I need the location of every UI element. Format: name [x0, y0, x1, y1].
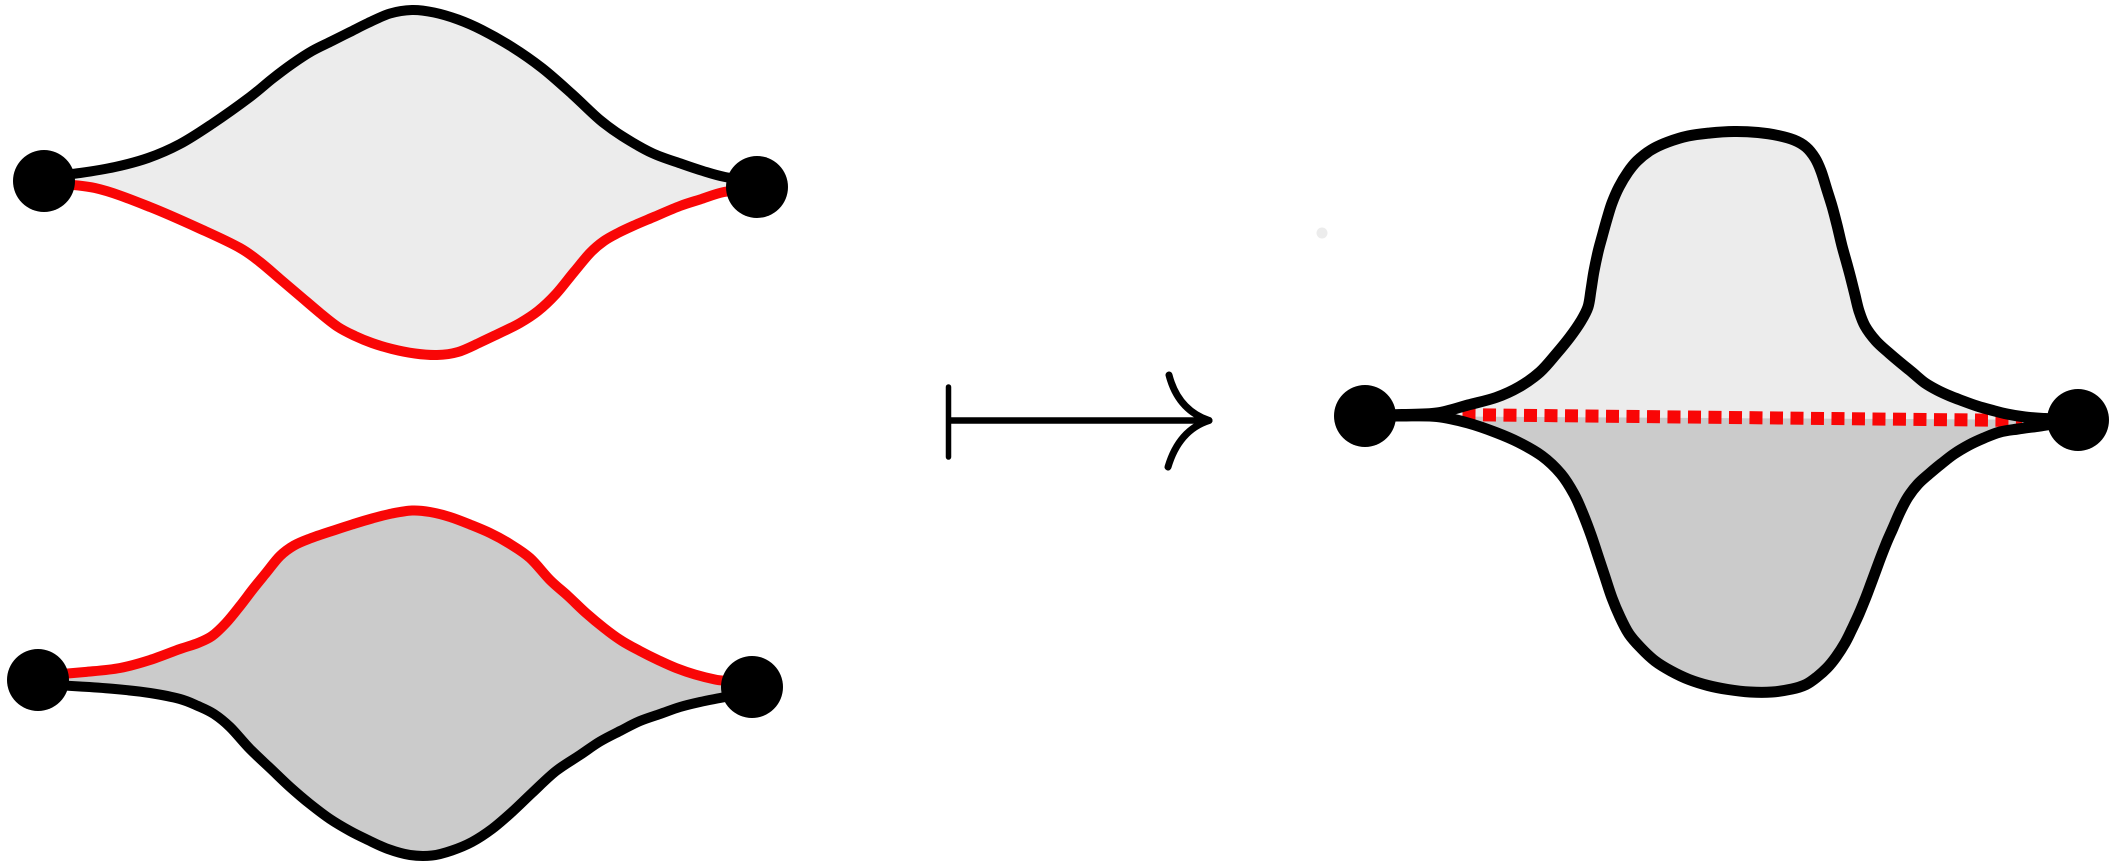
maps-to arrow upper barb [1169, 375, 1209, 421]
maps-to arrow bar [946, 387, 952, 457]
faint stray artifact dot [1317, 228, 1328, 239]
glued surface upper (light) fill [1365, 131, 2078, 420]
lower-left bigon left vertex dot [7, 649, 69, 711]
maps-to arrow shaft [949, 417, 1205, 424]
lower-left bigon fill [38, 510, 752, 856]
upper-left bigon fill [44, 10, 757, 355]
glued surface lower (dark) fill [1365, 416, 2078, 693]
upper-left bigon red bottom edge [44, 183, 757, 355]
lower-left bigon right vertex dot [721, 656, 783, 718]
maps-to arrow lower barb [1168, 421, 1209, 468]
lower-left bigon red top edge [38, 510, 752, 687]
glued surface right vertex dot [2047, 389, 2109, 451]
glued seam: dotted red line [1442, 415, 2022, 421]
upper-left bigon left vertex dot [13, 150, 75, 212]
lower-left bigon black bottom edge [38, 684, 752, 856]
glued surface left vertex dot [1334, 385, 1396, 447]
glued surface black outline, upper half [1365, 131, 2078, 420]
upper-left bigon right vertex dot [726, 156, 788, 218]
upper-left bigon black top edge [44, 10, 757, 182]
glued surface black outline, lower half [1365, 416, 2078, 693]
